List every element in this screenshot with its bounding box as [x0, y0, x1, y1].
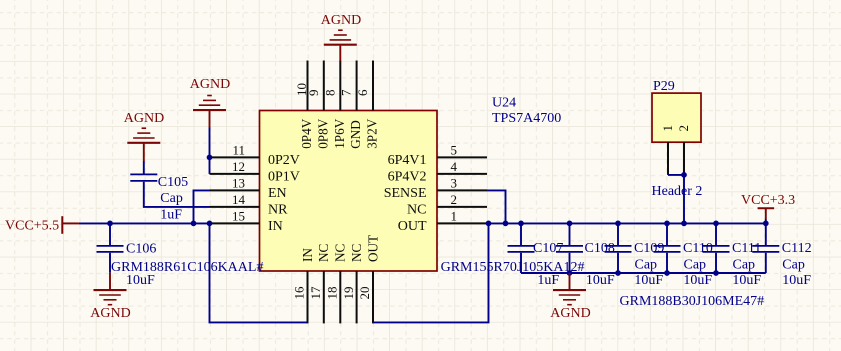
pin name GND — [348, 120, 363, 149]
wire SENSE pin 3 to output rail — [487, 190, 506, 223]
wire rail to C107 — [520, 223, 522, 245]
P29 pin 1 number — [660, 125, 675, 132]
svg-text:2: 2 — [451, 192, 458, 207]
svg-text:P29: P29 — [653, 79, 675, 94]
svg-text:12: 12 — [232, 159, 245, 174]
C111 designator — [732, 241, 761, 256]
pin 5 (6P4V1) right stub — [437, 156, 487, 158]
svg-text:10uF: 10uF — [782, 273, 811, 288]
C111 value 10uF — [732, 273, 761, 288]
pin 17 (NC) bottom stub — [323, 271, 325, 323]
svg-text:10uF: 10uF — [126, 273, 155, 288]
svg-text:GRM155R70J105KA12#: GRM155R70J105KA12# — [441, 260, 585, 275]
pin number 16 — [292, 286, 307, 300]
capacitor C109 — [605, 246, 632, 252]
junction OUT pin / down wire — [486, 221, 492, 227]
capacitor C110 — [654, 246, 681, 252]
pin 6 (3P2V) top stub — [372, 61, 374, 111]
svg-text:0P8V: 0P8V — [315, 118, 330, 149]
pin name OUT — [365, 235, 380, 262]
wire VCC+3.3 to rail — [765, 219, 767, 223]
pin number 19 — [341, 287, 356, 300]
svg-text:TPS7A4700: TPS7A4700 — [492, 111, 561, 126]
pin number 12 — [232, 159, 245, 174]
svg-text:4: 4 — [451, 159, 458, 174]
wire output rail — [487, 222, 766, 224]
pin name 3P2V — [365, 118, 380, 149]
power port VCC+3.3 — [741, 193, 795, 219]
pin number 10 — [294, 83, 309, 96]
junction C107 / output rail — [518, 221, 524, 227]
junction P29 pins — [681, 172, 687, 178]
U24 designator text — [492, 95, 516, 110]
svg-text:C105: C105 — [158, 175, 188, 190]
pin number 8 — [322, 90, 337, 97]
pin number 7 — [339, 89, 354, 96]
C110 designator — [683, 241, 713, 256]
svg-text:Cap: Cap — [160, 191, 183, 206]
pin 7 (GND) top stub — [356, 61, 358, 111]
C106 part number — [111, 260, 263, 275]
svg-text:Cap: Cap — [782, 257, 805, 272]
pin number 1 — [451, 208, 458, 223]
svg-text:GRM188B30J106ME47#: GRM188B30J106ME47# — [620, 294, 765, 309]
pin number 18 — [325, 287, 340, 300]
wire rail to C110 — [666, 223, 668, 245]
C106 designator — [126, 241, 156, 256]
svg-text:IN: IN — [268, 219, 283, 234]
svg-text:C108: C108 — [585, 241, 615, 256]
junction C111 / output rail — [713, 221, 719, 227]
svg-text:C110: C110 — [683, 241, 713, 256]
wire C107 to ground rail — [520, 253, 522, 273]
svg-text:AGND: AGND — [321, 13, 361, 28]
svg-text:NC: NC — [349, 243, 364, 262]
svg-text:AGND: AGND — [550, 306, 590, 321]
pin number 13 — [232, 175, 245, 190]
wire AGND to C105 — [143, 161, 145, 174]
svg-text:IN: IN — [300, 248, 315, 262]
pin 11 (0P2V) left stub — [210, 156, 260, 158]
wire pin 11 to pin 12 — [209, 157, 211, 174]
pin name SENSE — [384, 186, 427, 201]
power port AGND (above pins 11/12) — [190, 77, 230, 128]
power port VCC+5.5 — [5, 216, 79, 234]
wire C108 to ground rail — [569, 253, 571, 273]
C107 part number — [441, 260, 585, 275]
svg-text:0P4V: 0P4V — [299, 118, 314, 149]
junction C110 / ground rail — [664, 270, 670, 276]
pin number 20 — [357, 287, 372, 300]
pin name 6P4V2 — [388, 169, 427, 184]
svg-text:C111: C111 — [732, 241, 761, 256]
svg-text:15: 15 — [232, 208, 245, 223]
svg-text:2: 2 — [676, 125, 691, 132]
pin name 0P4V — [299, 118, 314, 149]
svg-text:3P2V: 3P2V — [365, 118, 380, 149]
pin number 6 — [355, 89, 370, 96]
C109 value 10uF — [634, 273, 663, 288]
pin number 9 — [306, 90, 321, 97]
svg-text:17: 17 — [308, 286, 323, 300]
svg-text:20: 20 — [357, 287, 372, 300]
pin 19 (NC) bottom stub — [356, 271, 358, 323]
pin name 6P4V1 — [388, 153, 427, 168]
capacitor C112 — [752, 246, 779, 252]
svg-text:Header 2: Header 2 — [652, 184, 703, 199]
junction C108 / output rail — [567, 221, 573, 227]
pin name NR — [268, 202, 288, 217]
pin number 3 — [451, 175, 458, 190]
pin number 15 — [232, 208, 245, 223]
pin name 0P8V — [315, 118, 330, 149]
C105 value 1uF — [160, 208, 182, 223]
pin name NC — [316, 243, 331, 262]
svg-text:5: 5 — [451, 142, 458, 157]
power port AGND (below C106) — [90, 273, 130, 321]
pin 9 (0P8V) top stub — [323, 61, 325, 111]
wire input rail down to pin 16 (IN bottom) — [210, 223, 308, 322]
svg-text:14: 14 — [232, 192, 246, 207]
wire C109 to ground rail — [617, 253, 619, 273]
connector P29 body — [652, 93, 701, 142]
svg-text:C106: C106 — [126, 241, 156, 256]
svg-text:0P2V: 0P2V — [268, 153, 300, 168]
svg-text:GND: GND — [348, 120, 363, 149]
junction pin 11 / AGND — [207, 155, 213, 161]
power port AGND (above C105) — [124, 111, 164, 161]
pin 16 (IN) bottom stub — [307, 271, 309, 323]
svg-text:8: 8 — [322, 90, 337, 97]
IC U24 TPS7A4700 body — [260, 111, 438, 272]
junction C108 / ground rail — [567, 270, 573, 276]
svg-text:SENSE: SENSE — [384, 186, 427, 201]
pin name NC — [407, 202, 426, 217]
C110 value 10uF — [683, 273, 712, 288]
pin 10 (0P4V) top stub — [307, 61, 309, 111]
capacitor C105 — [130, 174, 157, 181]
cap bank part number — [620, 294, 765, 309]
svg-text:10uF: 10uF — [732, 273, 761, 288]
wire rail to C111 — [715, 223, 717, 245]
pin name 0P1V — [268, 169, 300, 184]
svg-text:NC: NC — [333, 243, 348, 262]
svg-text:6: 6 — [355, 89, 370, 96]
wire P29 pins joined — [668, 175, 684, 224]
pin 14 (NR) left stub — [210, 206, 260, 208]
wire C105 to NR pin 14 — [144, 182, 210, 207]
svg-text:U24: U24 — [492, 95, 516, 110]
C109 type Cap — [635, 257, 658, 272]
svg-text:1: 1 — [660, 125, 675, 132]
C106 value 10uF — [126, 273, 155, 288]
pin 15 (IN) left stub — [210, 222, 260, 224]
svg-text:0P1V: 0P1V — [268, 169, 300, 184]
junction C111 / ground rail — [713, 270, 719, 276]
wire EN pin 13 to input rail — [194, 190, 210, 223]
wire C106 to AGND — [109, 253, 111, 273]
C105 designator — [158, 175, 188, 190]
svg-text:16: 16 — [292, 286, 307, 300]
U24 value text TPS7A4700 — [492, 111, 561, 126]
pin number 4 — [451, 159, 458, 174]
pin 20 (OUT) bottom stub — [372, 271, 374, 323]
svg-text:NC: NC — [407, 202, 426, 217]
svg-text:VCC+3.3: VCC+3.3 — [741, 193, 795, 208]
svg-text:Cap: Cap — [684, 257, 707, 272]
svg-text:9: 9 — [306, 90, 321, 97]
svg-text:1uF: 1uF — [537, 273, 559, 288]
wire C112 to ground rail — [765, 253, 767, 273]
C108 designator — [585, 241, 615, 256]
C110 type Cap — [684, 257, 707, 272]
pin 8 (1P6V) top stub — [339, 61, 341, 111]
C111 type Cap — [733, 257, 756, 272]
pin 3 (SENSE) right stub — [437, 189, 487, 191]
svg-text:19: 19 — [341, 287, 356, 300]
svg-text:EN: EN — [268, 186, 287, 201]
C112 designator — [782, 241, 812, 256]
svg-text:6P4V2: 6P4V2 — [388, 169, 427, 184]
pin 18 (NC) bottom stub — [339, 271, 341, 323]
pin name IN — [300, 248, 315, 262]
pin number 17 — [308, 286, 323, 300]
wire rail to C112 — [765, 223, 767, 245]
junction C109 / ground rail — [615, 270, 621, 276]
P29 comment Header 2 — [652, 184, 703, 199]
svg-text:11: 11 — [232, 142, 245, 157]
pin name NC — [349, 243, 364, 262]
svg-text:Cap: Cap — [733, 257, 756, 272]
svg-text:AGND: AGND — [124, 111, 164, 126]
svg-text:Cap: Cap — [635, 257, 658, 272]
capacitor C106 — [97, 246, 124, 252]
wire AGND to pin 11 — [209, 128, 211, 158]
pin 4 (6P4V2) right stub — [437, 173, 487, 175]
svg-text:18: 18 — [325, 287, 340, 300]
junction EN / input rail — [191, 221, 197, 227]
svg-text:13: 13 — [232, 175, 245, 190]
pin number 14 — [232, 192, 246, 207]
svg-text:VCC+5.5: VCC+5.5 — [5, 218, 59, 233]
svg-text:1P6V: 1P6V — [332, 118, 347, 149]
C112 type Cap — [782, 257, 805, 272]
P29 designator — [653, 79, 675, 94]
svg-text:C112: C112 — [782, 241, 812, 256]
junction SENSE / output rail — [503, 221, 509, 227]
svg-text:C109: C109 — [634, 241, 664, 256]
junction P29 / output rail — [681, 221, 687, 227]
junction C109 / output rail — [615, 221, 621, 227]
pin 1 (OUT) right stub — [437, 222, 487, 224]
wire C110 to ground rail — [666, 253, 668, 273]
capacitor C111 — [703, 246, 730, 252]
C107 value 1uF — [537, 273, 559, 288]
pin 12 (0P1V) left stub — [210, 173, 260, 175]
pin name NC — [333, 243, 348, 262]
svg-text:OUT: OUT — [398, 219, 427, 234]
svg-text:C107: C107 — [533, 241, 563, 256]
svg-text:1: 1 — [451, 208, 458, 223]
C109 designator — [634, 241, 664, 256]
pin name IN — [268, 219, 283, 234]
svg-text:OUT: OUT — [365, 235, 380, 262]
pin name OUT — [398, 219, 427, 234]
svg-text:7: 7 — [339, 89, 354, 96]
pin number 5 — [451, 142, 458, 157]
wire pin 20 (OUT bottom) to output rail — [373, 223, 489, 322]
svg-text:10uF: 10uF — [683, 273, 712, 288]
pin 2 (NC) right stub — [437, 206, 487, 208]
svg-text:1uF: 1uF — [160, 208, 182, 223]
svg-text:NC: NC — [316, 243, 331, 262]
P29 pin 2 stub — [683, 142, 685, 175]
power port AGND (below C108) — [550, 273, 590, 321]
pin number 2 — [451, 192, 458, 207]
C105 type Cap — [160, 191, 183, 206]
wire rail to C106 — [109, 223, 111, 245]
pin 13 (EN) left stub — [210, 189, 260, 191]
junction C112 / output rail — [763, 221, 769, 227]
wire C111 to ground rail — [715, 253, 717, 273]
C112 value 10uF — [782, 273, 811, 288]
wire VCC+5.5 input rail — [79, 222, 210, 224]
C107 designator — [533, 241, 563, 256]
pin number 11 — [232, 142, 245, 157]
pin name 1P6V — [332, 118, 347, 149]
junction input rail / down wire — [207, 221, 213, 227]
svg-text:NR: NR — [268, 202, 288, 217]
wire capacitor ground rail — [521, 272, 766, 274]
svg-text:AGND: AGND — [190, 77, 230, 92]
pin name 0P2V — [268, 153, 300, 168]
svg-text:6P4V1: 6P4V1 — [388, 153, 427, 168]
pin name EN — [268, 186, 287, 201]
junction C110 / output rail — [664, 221, 670, 227]
wire rail to C108 — [569, 223, 571, 245]
svg-text:AGND: AGND — [90, 306, 130, 321]
power port AGND (top of IC) — [321, 13, 361, 62]
wire rail to C109 — [617, 223, 619, 245]
C108 value 10uF — [586, 273, 615, 288]
P29 pin 1 stub — [667, 142, 669, 175]
P29 pin 2 number — [676, 125, 691, 132]
svg-text:10uF: 10uF — [586, 273, 615, 288]
svg-text:10uF: 10uF — [634, 273, 663, 288]
capacitor C107 — [508, 246, 535, 252]
svg-text:3: 3 — [451, 175, 458, 190]
junction C106 tap — [107, 221, 113, 227]
capacitor C108 — [556, 246, 583, 252]
